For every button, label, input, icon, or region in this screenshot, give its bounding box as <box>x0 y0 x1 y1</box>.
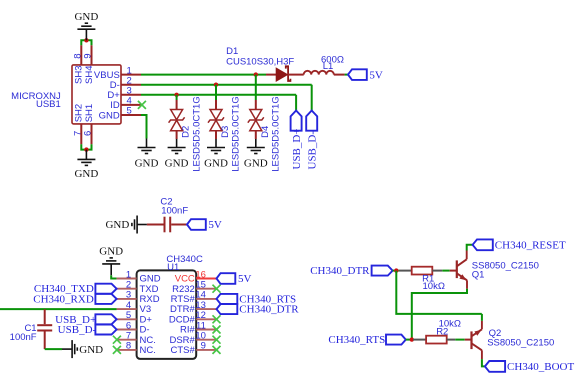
svg-text:9: 9 <box>83 54 94 59</box>
svg-text:8: 8 <box>126 341 131 352</box>
op-amp U1 CH340C body <box>137 254 203 359</box>
wire DTR cross to Q2 emitter <box>396 271 482 314</box>
svg-text:GND: GND <box>165 157 189 169</box>
net flag 5V (C2) <box>187 219 222 231</box>
U1 pin 4 V3 <box>117 300 152 315</box>
pin 7 shield SH2 <box>72 104 84 144</box>
junction top shield <box>84 38 88 42</box>
svg-text:LESD5D5.0CT1G: LESD5D5.0CT1G <box>271 96 282 172</box>
wire D+ <box>141 94 296 96</box>
wire Q1 emitter to RTS node <box>412 289 467 340</box>
net flag USB_D- (vertical) <box>306 111 318 170</box>
TVS diode D2 LESD5D5.0CT1G <box>169 96 203 172</box>
svg-text:6: 6 <box>83 131 94 136</box>
capacitor C2 100nF <box>147 197 188 233</box>
net flag USB_D+ (vertical) <box>291 111 303 170</box>
resistor R2 10k <box>413 319 461 344</box>
capacitor C1 100nF <box>10 309 53 349</box>
net flag CH340_DTR (right) <box>310 265 392 277</box>
ground bottom <box>77 150 95 166</box>
wire top shield pair <box>81 40 91 45</box>
svg-text:100nF: 100nF <box>161 205 188 216</box>
net flag CH340_RESET <box>473 239 566 251</box>
ground D2 <box>168 139 186 154</box>
pin 1 VBUS <box>94 65 141 81</box>
net flag 5V (top) <box>348 69 383 81</box>
U1 pin 11 RI# NC <box>180 320 220 335</box>
node D+ / junction D2 <box>174 93 178 97</box>
junction DTR node <box>394 268 398 272</box>
pin 5 GND <box>99 106 141 122</box>
TVS diode D4 LESD5D5.0CT1G <box>248 96 282 172</box>
U1 pin 7 NC <box>113 331 156 346</box>
wire D- <box>141 84 312 86</box>
pin 2 D- <box>110 75 141 91</box>
node VBUS / junction D4 <box>254 72 258 76</box>
resistor R1 10k <box>399 267 445 292</box>
svg-text:5V: 5V <box>238 273 252 285</box>
svg-text:GND: GND <box>105 219 129 231</box>
wire to D2 <box>176 95 178 100</box>
wire pin5 GND <box>141 115 147 139</box>
U1 pin 10 DSR# NC <box>169 331 220 346</box>
wire GND to pin1 <box>111 275 116 278</box>
svg-text:5V: 5V <box>369 69 383 81</box>
junction RTS node <box>410 337 414 341</box>
svg-text:GND: GND <box>204 157 228 169</box>
svg-text:USB1: USB1 <box>36 99 61 110</box>
wire VBUS <box>141 74 266 76</box>
U1 pin 2 TXD <box>117 280 159 295</box>
svg-text:5V: 5V <box>208 219 222 231</box>
ground flag U1 pin1 <box>99 245 123 275</box>
ground D3 <box>207 139 225 154</box>
junction bottom shield <box>84 147 88 151</box>
U1 pin 1 GND <box>117 269 161 284</box>
ground flag C1 (horizontal) <box>62 340 103 358</box>
node D- / junction D3 <box>214 83 218 87</box>
U1 pin 8 NC <box>113 341 156 356</box>
net flag CH340_BOOT <box>485 361 575 373</box>
U1 pin 9 CTS# NC <box>171 341 221 356</box>
wire L1 to 5V <box>345 74 348 76</box>
wire DTR to R1 <box>393 270 399 272</box>
svg-text:U1: U1 <box>167 262 179 273</box>
pin 9 shield SH4 <box>83 45 95 84</box>
U1 pin 13 DTR# <box>170 300 216 315</box>
wire Q2 emitter up <box>481 314 483 321</box>
svg-text:SH1: SH1 <box>84 104 95 122</box>
net flag CH340_TXD <box>34 283 117 295</box>
net flag CH340_DTR (U1 pin13) <box>217 304 300 316</box>
svg-text:L1: L1 <box>323 61 334 72</box>
svg-text:USB_D-: USB_D- <box>306 131 318 170</box>
ground D4 <box>247 139 265 154</box>
svg-text:R2: R2 <box>436 327 448 338</box>
svg-text:USB_D+: USB_D+ <box>291 128 303 169</box>
svg-text:GND: GND <box>74 168 98 180</box>
svg-text:D1: D1 <box>226 46 238 57</box>
inductor L1 600ohm <box>304 55 345 75</box>
svg-text:D4: D4 <box>260 126 271 138</box>
TVS diode D3 LESD5D5.0CT1G <box>208 96 242 172</box>
pin 8 shield SH3 <box>72 45 84 84</box>
U1 pin 16 VCC <box>175 269 217 284</box>
svg-text:CH340_RXD: CH340_RXD <box>33 293 94 305</box>
svg-text:Q1: Q1 <box>472 270 485 281</box>
svg-text:NC.: NC. <box>140 345 156 356</box>
wire C1 to ground <box>45 348 62 350</box>
net flag 5V (U1 pin16) <box>217 273 252 285</box>
wire R2 to Q2 base <box>455 339 464 341</box>
U1 pin 5 D+ <box>117 310 153 325</box>
svg-text:SH4: SH4 <box>84 66 95 84</box>
svg-text:LESD5D5.0CT1G: LESD5D5.0CT1G <box>191 96 202 172</box>
svg-text:CH340_DTR: CH340_DTR <box>310 265 370 277</box>
ground top <box>77 23 95 40</box>
svg-text:LESD5D5.0CT1G: LESD5D5.0CT1G <box>231 96 242 172</box>
wire to D4 <box>255 75 257 100</box>
svg-text:CH340_DTR: CH340_DTR <box>239 304 299 316</box>
svg-text:5: 5 <box>127 106 132 117</box>
svg-text:100nF: 100nF <box>10 332 37 343</box>
U1 pin 14 RTS# <box>171 290 217 305</box>
svg-text:GND: GND <box>99 110 120 121</box>
ground pin5 <box>138 139 156 154</box>
pin 4 ID (no connect) <box>110 96 146 112</box>
net flag CH340_RTS (U1 pin14) <box>217 293 297 305</box>
U1 pin 6 D- <box>117 320 150 335</box>
svg-text:CUS10S30,H3F: CUS10S30,H3F <box>226 57 294 68</box>
wire V3 rail <box>0 308 117 310</box>
U1 pin 15 R232 NC <box>172 280 220 295</box>
pin 3 D+ <box>107 86 141 102</box>
pin 6 shield SH1 <box>83 104 95 144</box>
svg-text:CH340_RESET: CH340_RESET <box>495 240 566 252</box>
svg-text:10kΩ: 10kΩ <box>423 281 445 292</box>
wire D- to USB_D- flag <box>311 85 313 111</box>
wire R1 to Q1 base <box>442 270 449 272</box>
svg-text:GND: GND <box>74 11 98 23</box>
svg-text:GND: GND <box>99 245 123 257</box>
svg-text:GND: GND <box>135 157 159 169</box>
svg-text:CH340_RTS: CH340_RTS <box>328 334 385 346</box>
wire to D3 <box>215 85 217 100</box>
svg-text:SS8050_C2150: SS8050_C2150 <box>487 337 554 348</box>
svg-text:USB_D-: USB_D- <box>58 324 97 336</box>
svg-text:D3: D3 <box>220 126 231 138</box>
net flag USB_D- (U1) <box>58 324 117 336</box>
svg-text:CTS#: CTS# <box>171 345 196 356</box>
svg-text:D2: D2 <box>181 126 192 138</box>
connector USB1 body <box>11 65 121 124</box>
svg-text:GND: GND <box>79 344 103 356</box>
wire Q1 collector to RESET <box>467 245 473 251</box>
svg-text:9: 9 <box>201 341 206 352</box>
transistor Q2 SS8050 (flipped) <box>465 321 555 359</box>
wire Q2 collector to BOOT <box>482 359 485 366</box>
ground flag C2 (horizontal) <box>105 216 146 234</box>
net flag CH340_RXD <box>33 293 116 305</box>
transistor Q1 SS8050 <box>450 251 539 289</box>
net flag CH340_RTS (right) <box>328 334 405 346</box>
wire RTS to R2 <box>406 339 413 341</box>
diode D1 CUS10S30,H3F <box>226 46 304 81</box>
net flag USB_D+ (U1) <box>55 314 116 326</box>
wire D+ to USB_D+ flag <box>295 95 297 111</box>
U1 pin 12 DCD# NC <box>169 310 221 325</box>
U1 pin 3 RXD <box>117 290 160 305</box>
wire bottom shield pair <box>81 144 91 149</box>
svg-text:GND: GND <box>244 157 268 169</box>
svg-text:CH340_BOOT: CH340_BOOT <box>507 361 575 373</box>
